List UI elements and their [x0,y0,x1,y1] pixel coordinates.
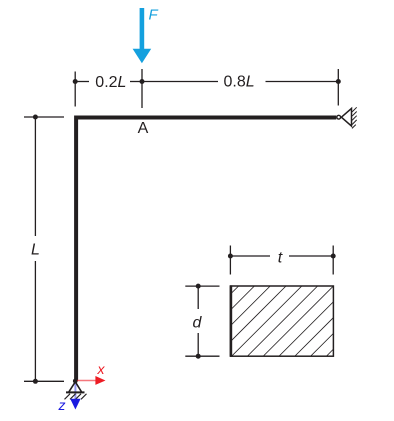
svg-text:d: d [193,314,203,331]
z axis shaft [74,381,76,400]
svg-text:x: x [97,361,106,377]
dimension line t [230,255,333,257]
svg-text:F: F [149,7,159,24]
dimension dots t [228,254,336,259]
svg-text:0.2L: 0.2L [95,74,126,91]
svg-text:A: A [138,120,149,137]
force arrow F [133,8,152,63]
dimension dots left [33,115,38,384]
dimension line 0.2L [75,81,142,83]
dimension line d [197,286,199,356]
pin support bottom [65,382,87,400]
dimension line 0.8L [142,81,338,83]
cross-section rectangle [231,286,334,356]
frame beams [76,118,336,382]
cross-section hatching [163,281,394,361]
dimension ticks top [75,69,338,108]
z axis arrowhead [70,399,80,410]
pin support top right [337,107,357,128]
node pin bottom [73,379,78,384]
svg-text:t: t [278,249,283,266]
dimension ticks left [24,117,64,381]
dimension ticks d [185,286,219,356]
svg-text:L: L [31,241,40,258]
svg-text:z: z [58,397,66,413]
dimension dots top [73,79,341,84]
x axis arrow [77,376,106,385]
dimension ticks t [230,246,333,275]
svg-text:0.8L: 0.8L [224,74,255,91]
dimension dots d [196,284,201,359]
dimension line L [34,117,36,381]
cross-section left edge thick [230,285,233,356]
